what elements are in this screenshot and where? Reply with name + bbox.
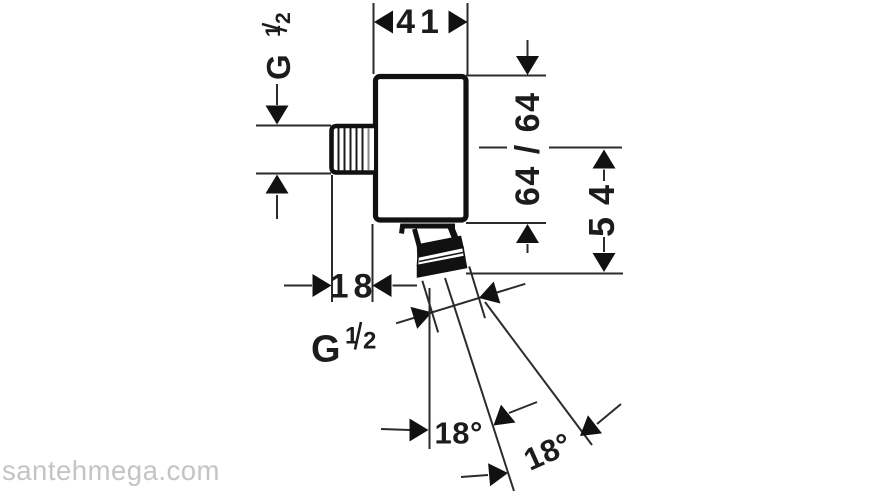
dim 41 right arrow <box>449 11 468 34</box>
svg-text:santehmega.com: santehmega.com <box>2 455 220 486</box>
center tick <box>479 147 507 149</box>
dim 54 down arrow <box>593 253 616 272</box>
fan line vertical <box>429 288 431 449</box>
nozzle dark ring 1 <box>418 237 464 258</box>
dim 54 stub lower <box>603 237 605 252</box>
dim 54 text <box>581 184 622 237</box>
dim 41 left arrow <box>374 11 393 34</box>
svg-text:2: 2 <box>363 328 376 355</box>
dim 41 extension line right <box>467 3 469 75</box>
G half top tick upper <box>256 125 331 127</box>
G half top dim line lower <box>276 195 278 219</box>
G half top dim line upper <box>276 84 278 105</box>
dim 64 stub bottom <box>527 244 529 253</box>
G half top down arrow <box>266 106 289 125</box>
G half top up arrow <box>266 175 289 194</box>
thread hatch line 5 <box>362 128 364 171</box>
svg-text:64 / 64: 64 / 64 <box>509 92 547 206</box>
svg-text:G: G <box>260 54 297 80</box>
svg-text:18: 18 <box>330 268 378 306</box>
angle 18b left arrow <box>488 463 508 486</box>
nozzle neck left side <box>415 229 421 249</box>
dim 18 extension line left <box>331 175 333 302</box>
svg-text:2: 2 <box>272 12 295 24</box>
dim 54 bottom line <box>466 273 623 275</box>
fan line 36 deg <box>485 302 592 445</box>
dim 18 line right <box>393 285 418 287</box>
thread stub outline <box>332 126 375 173</box>
mouth extension line right <box>469 266 485 318</box>
dim 18 left arrow <box>313 274 332 297</box>
G half mouth dimension line <box>396 284 525 323</box>
nozzle dark mouth ring <box>418 257 467 278</box>
svg-text:18°: 18° <box>435 416 483 451</box>
angle 18a leader right <box>509 402 537 413</box>
svg-text:5 4: 5 4 <box>581 184 622 237</box>
angle 18a right arrow <box>494 405 516 426</box>
thread shadow line <box>368 128 370 171</box>
thread hatch line 2 <box>344 128 346 171</box>
nozzle neck right side <box>450 225 458 245</box>
dim 54 up arrow <box>593 150 616 169</box>
G half top tick lower <box>256 173 331 175</box>
nozzle mouth dimension rotated group <box>386 252 531 343</box>
dim 18 line left <box>284 285 312 287</box>
dim 18 right arrow <box>373 274 392 297</box>
angle 18a leader left <box>381 429 410 430</box>
fan line 18 deg <box>445 278 514 491</box>
angle 18b right arrow <box>580 415 602 436</box>
svg-text:18°: 18° <box>519 426 577 478</box>
dim 54 stub upper <box>603 170 605 182</box>
angle 18b leader left <box>461 475 488 477</box>
svg-text:41: 41 <box>396 3 444 41</box>
swivel flange <box>402 226 456 234</box>
mouth extension line left <box>422 281 438 333</box>
dim 64 down arrow <box>516 56 539 75</box>
thread hatch line 1 <box>338 128 340 171</box>
thread hatch line 3 <box>350 128 352 171</box>
G half bottom text <box>311 322 376 371</box>
dim 41 extension line left <box>373 3 375 74</box>
G half mouth right arrow <box>476 281 501 309</box>
dim 64 up arrow <box>516 224 539 243</box>
angle 18a left arrow <box>410 419 429 442</box>
angle 18b leader right <box>597 404 621 424</box>
wall plate body <box>376 77 467 221</box>
bottom reference line <box>466 222 546 224</box>
svg-text:G: G <box>311 329 341 371</box>
thread hatch line 4 <box>356 128 358 171</box>
nozzle ring stripe <box>419 253 463 262</box>
nozzle neck cross line <box>425 239 457 246</box>
nozzle light ring <box>418 248 465 266</box>
dim 54 top line <box>549 147 622 149</box>
dim 64 stub top <box>527 40 529 56</box>
dim 64 text <box>509 92 547 206</box>
angle 18b text <box>519 426 577 478</box>
top right reference line <box>466 75 546 77</box>
G half mouth left arrow <box>410 301 435 329</box>
dim 18 extension line right <box>372 224 374 302</box>
G half top text <box>260 12 297 80</box>
